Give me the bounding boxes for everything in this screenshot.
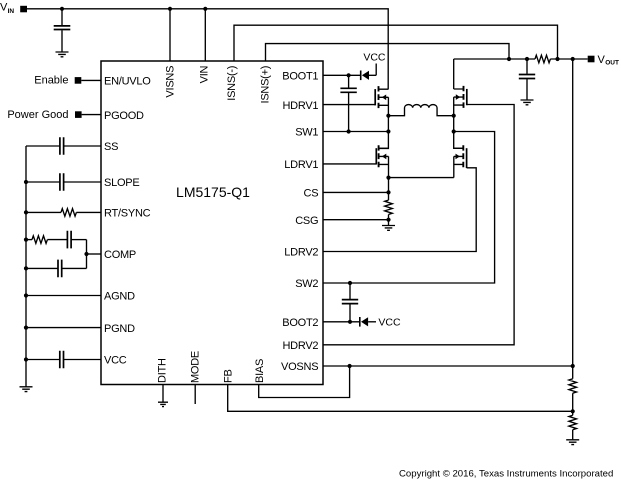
svg-text:VISNS: VISNS (165, 66, 177, 98)
ground GND-COUT (521, 100, 534, 105)
svg-text:PGOOD: PGOOD (104, 110, 144, 122)
transistor Q1 (375, 86, 388, 108)
capacitor CSS (26, 137, 101, 155)
junction COUT rail (525, 57, 529, 61)
node VIN terminal (0, 2, 27, 16)
svg-text:CSG: CSG (295, 215, 318, 227)
svg-text:SW2: SW2 (295, 278, 318, 290)
svg-text:BOOT1: BOOT1 (282, 71, 318, 83)
svg-text:PGND: PGND (104, 323, 135, 335)
svg-text:VIN: VIN (198, 66, 210, 84)
junction VIN-CIN (60, 7, 64, 11)
capacitor CCOMP1 (67, 231, 86, 249)
junction VOSNS-div (571, 364, 575, 368)
resistor RFB1 (569, 379, 577, 393)
svg-text:Copyright © 2016, Texas Instru: Copyright © 2016, Texas Instruments Inco… (399, 468, 613, 479)
wire HDRV2 route (323, 105, 514, 345)
svg-text:LDRV2: LDRV2 (284, 247, 318, 259)
op-amp U1 LM5175-Q1 (101, 61, 323, 385)
wire MODE stub (194, 385, 196, 405)
svg-text:VCC: VCC (378, 316, 401, 328)
junction SW1 node (386, 129, 390, 133)
junction bus-COMP1 (24, 238, 28, 242)
junction CBOOT2-BOOT2 (348, 320, 352, 324)
resistor RT (26, 209, 101, 217)
wire Q2 source chain (388, 156, 390, 200)
wire PowerGood to PGOOD (82, 114, 101, 116)
svg-text:IN: IN (8, 8, 15, 15)
wire RCS to gnd (388, 215, 390, 226)
svg-text:EN/UVLO: EN/UVLO (104, 76, 151, 88)
ground GND-FB (566, 440, 579, 445)
wire Enable to EN/UVLO (81, 79, 101, 81)
svg-text:AGND: AGND (104, 291, 135, 303)
svg-text:HDRV1: HDRV1 (282, 100, 318, 112)
svg-text:OUT: OUT (605, 60, 619, 67)
svg-text:BIAS: BIAS (254, 359, 266, 383)
node PowerGood terminal (7, 109, 81, 121)
svg-text:LM5175-Q1: LM5175-Q1 (176, 184, 250, 200)
wire BOOT2 (323, 321, 360, 323)
ground GND-CIN (56, 52, 69, 57)
capacitor CCOMP2 (26, 260, 87, 278)
node Enable terminal (34, 75, 81, 87)
node VOUT terminal (588, 54, 619, 67)
junction bus-COMP2 (24, 266, 28, 270)
wire left bus (25, 146, 27, 387)
wire Q3 source down (454, 97, 464, 148)
junction L1 left (386, 114, 390, 118)
junction bus-VCC (24, 357, 28, 361)
node VCC label top (363, 52, 386, 76)
junction ISNS- rail (555, 57, 559, 61)
resistor RCOMP (26, 236, 67, 244)
wire HDRV1 (323, 104, 375, 106)
junction BIAS-VOSNS (348, 364, 352, 368)
capacitor CBOOT2 (342, 283, 358, 322)
svg-text:SW1: SW1 (295, 127, 318, 139)
wire Q2-Q4 source link (389, 177, 454, 179)
resistor RCS (385, 200, 393, 214)
wire SW1 (323, 131, 388, 133)
wire CS (323, 191, 389, 193)
junction SW2 tap (452, 129, 456, 133)
junction bus-SLOPE (24, 180, 28, 184)
wire COMP pin (87, 253, 102, 255)
svg-text:DITH: DITH (157, 358, 169, 383)
wire PGND (26, 327, 101, 329)
wire BIAS route (259, 366, 350, 398)
wire Q4 body-source (453, 156, 455, 177)
wire Q1 source to SW1 node (379, 97, 389, 148)
diode D2 (360, 317, 376, 327)
capacitor CBOOT1 (340, 75, 356, 131)
transistor Q3 (454, 86, 467, 108)
wire FB divider vertical (572, 59, 574, 439)
svg-text:ISNS(-): ISNS(-) (226, 66, 238, 101)
wire FB route (228, 385, 573, 412)
svg-text:Power Good: Power Good (7, 109, 68, 121)
capacitor CIN (54, 9, 71, 52)
junction CSG tap (386, 218, 390, 222)
wire COMP right link (86, 240, 88, 269)
wire DITH stub (162, 385, 164, 402)
diode D1 (361, 71, 377, 81)
wire LDRV1 (323, 163, 376, 165)
junction bus-RT (24, 210, 28, 214)
svg-text:MODE: MODE (190, 351, 202, 383)
ground GND-CS (382, 226, 395, 231)
svg-text:LDRV1: LDRV1 (284, 159, 318, 171)
svg-text:VCC: VCC (104, 355, 127, 367)
junction BOOT1-CBOOT1 (347, 73, 351, 77)
inductor L1 (388, 105, 453, 116)
capacitor COUT (519, 59, 535, 100)
junction VINpin-rail (203, 7, 207, 11)
capacitor CSLOPE (26, 173, 101, 191)
svg-text:FB: FB (223, 369, 235, 383)
wire BOOT1 (323, 74, 360, 76)
wire Vout rail (454, 58, 588, 60)
junction FB node (571, 409, 575, 413)
wire LDRV2 route (323, 168, 476, 252)
svg-text:CS: CS (304, 188, 319, 200)
svg-text:VOSNS: VOSNS (281, 361, 318, 373)
wire VOSNS (323, 365, 573, 367)
wire ISNS(-) (234, 25, 558, 61)
capacitor CVCC (26, 351, 101, 369)
svg-text:SS: SS (104, 141, 118, 153)
svg-text:COMP: COMP (104, 249, 136, 261)
wire CSG (323, 219, 389, 221)
svg-text:VCC: VCC (363, 52, 386, 64)
svg-text:Enable: Enable (34, 75, 68, 87)
transistor Q4 (454, 145, 467, 168)
wire Q3 drain to Vout rail (453, 59, 455, 89)
junction VISNS-rail (168, 7, 172, 11)
resistor RFB2 (569, 415, 577, 429)
svg-text:RT/SYNC: RT/SYNC (104, 208, 151, 220)
ground GND-bus (20, 387, 33, 392)
ground GND-DITH (158, 402, 168, 406)
wire VIN rail (27, 9, 388, 89)
junction bus-PGND (24, 326, 28, 330)
transistor Q2 (376, 145, 388, 167)
resistor RSNS (535, 55, 550, 63)
junction COMP node (84, 252, 88, 256)
wire AGND (26, 295, 101, 297)
wire SW2 route (323, 132, 495, 284)
svg-text:BOOT2: BOOT2 (282, 317, 318, 329)
junction CBOOT1-SW1 (347, 129, 351, 133)
junction L1 right (452, 114, 456, 118)
wire VISNS (169, 9, 171, 61)
junction bus-AGND (24, 293, 28, 297)
junction Q2src-link (386, 176, 390, 180)
wire VIN pin (204, 9, 206, 61)
svg-text:HDRV2: HDRV2 (282, 340, 318, 352)
svg-text:SLOPE: SLOPE (104, 177, 139, 189)
svg-text:ISNS(+): ISNS(+) (260, 66, 272, 104)
junction ISNS+ rail (507, 57, 511, 61)
junction FBdiv rail (571, 57, 575, 61)
wire ISNS(+) (266, 44, 510, 61)
junction CS tap (386, 190, 390, 194)
junction SW2-CBOOT2 (348, 281, 352, 285)
